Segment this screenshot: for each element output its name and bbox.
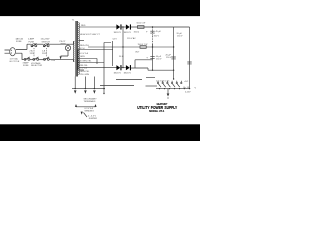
svg-text:1N2071: 1N2071 [114, 32, 122, 34]
svg-text:45 μF: 45 μF [156, 31, 162, 33]
svg-text:117 V AC: 117 V AC [10, 58, 19, 61]
svg-text:120 V AC: 120 V AC [127, 37, 136, 40]
svg-text:1.5 3 4.5 6 7.5: 1.5 3 4.5 6 7.5 [156, 80, 170, 82]
svg-text:RED: RED [81, 25, 86, 27]
svg-text:6.3 V 1 A: 6.3 V 1 A [79, 67, 88, 70]
svg-text:FUSE: FUSE [16, 41, 22, 43]
svg-text:SWITCH: SWITCH [42, 41, 51, 43]
svg-text:150 V: 150 V [177, 35, 183, 37]
svg-text:HIGH VOLT 540V CT: HIGH VOLT 540V CT [80, 34, 101, 36]
svg-text:56 Ω: 56 Ω [119, 56, 124, 58]
svg-text:54 V: 54 V [113, 38, 118, 40]
svg-text:GRN-YEL: GRN-YEL [79, 65, 89, 67]
svg-text:FUSE: FUSE [29, 41, 35, 43]
svg-text:0-15V: 0-15V [185, 92, 191, 94]
svg-text:SELECTOR: SELECTOR [31, 65, 43, 67]
svg-text:150 Ω: 150 Ω [134, 32, 140, 34]
svg-text:1 PH: 1 PH [51, 60, 56, 62]
svg-text:MODEL UT-1: MODEL UT-1 [149, 109, 164, 113]
svg-text:230V: 230V [42, 53, 47, 55]
svg-text:150 V: 150 V [156, 59, 162, 61]
svg-text:115V: 115V [30, 53, 35, 55]
svg-text:RED-YEL: RED-YEL [80, 45, 90, 47]
svg-text:OUT: OUT [135, 52, 140, 54]
svg-text:3AG 2A: 3AG 2A [16, 37, 24, 40]
svg-text:FUSE: FUSE [23, 65, 29, 67]
svg-text:5B GRN-YEL: 5B GRN-YEL [79, 61, 92, 63]
svg-text:JUMPER: JUMPER [89, 118, 98, 120]
svg-text:6.3 V 1 A: 6.3 V 1 A [80, 52, 89, 55]
svg-text:YEL GRN: YEL GRN [80, 74, 90, 76]
svg-text:150 V: 150 V [154, 36, 160, 38]
svg-text:GRN: GRN [80, 56, 85, 58]
svg-text:2 AMP: 2 AMP [28, 37, 35, 40]
svg-text:LAMP: LAMP [60, 42, 66, 45]
svg-text:1N2071: 1N2071 [124, 73, 132, 75]
svg-text:WINDING: WINDING [85, 111, 95, 113]
svg-text:SECONDARY: SECONDARY [84, 98, 98, 101]
svg-text:NO 54: NO 54 [79, 48, 84, 50]
svg-text:56 Ω 5 W: 56 Ω 5 W [137, 23, 146, 25]
svg-text:+DC: +DC [184, 81, 189, 83]
svg-text:B+ 15: B+ 15 [184, 87, 190, 89]
svg-text:115-230V: 115-230V [41, 38, 50, 40]
svg-text:150 V: 150 V [166, 57, 172, 59]
svg-text:TERMINALS: TERMINALS [84, 100, 97, 103]
svg-text:1N2071: 1N2071 [124, 32, 132, 34]
svg-text:150 Ω 7 W: 150 Ω 7 W [138, 44, 148, 46]
svg-text:GRN-YEL: GRN-YEL [80, 71, 90, 73]
svg-text:1N2071: 1N2071 [114, 73, 122, 75]
svg-text:60 CYCLE: 60 CYCLE [10, 61, 20, 63]
